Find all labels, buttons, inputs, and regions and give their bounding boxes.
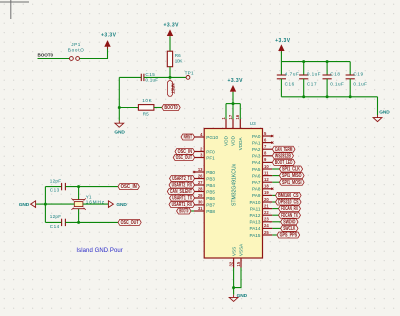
wire C14 to OSC_OUT [65,221,118,223]
wire VDD pin 17 drop [232,104,234,119]
pin 18 PA8 (right) [263,188,273,190]
svg-text:PG10: PG10 [206,135,218,140]
wire pin to SWCLK label [272,227,280,229]
junction C18 bottom [326,95,329,98]
svg-text:12pF: 12pF [50,178,61,183]
wire bottom rail to GND [377,97,379,115]
svg-text:VSS: VSS [231,247,236,256]
wire C17 bottom [303,79,305,97]
wire GND bus to crystal case left [45,203,74,205]
svg-text:GND: GND [379,109,390,115]
svg-text:USART2_TX: USART2_TX [172,176,192,182]
wire C17 top [303,62,305,75]
global label SPI1_CLK [279,166,302,172]
svg-text:U3: U3 [250,121,256,126]
svg-text:BOOT0: BOOT0 [38,52,54,57]
svg-text:+3.3V: +3.3V [228,78,244,84]
svg-text:PB4: PB4 [206,183,215,188]
svg-text:PB7: PB7 [206,203,215,208]
pin 31 PB8 (left) [194,210,204,212]
wire +3.3V to R6 [169,37,171,52]
wire GND bus (crystal, vertical) [44,187,46,223]
wire OSC_IN to crystal pin 1 [78,187,80,200]
svg-text:PA8: PA8 [252,187,261,192]
wire bottom rail [281,96,377,98]
svg-text:PB0: PB0 [206,170,215,175]
no-connect X at PB0 [193,171,195,173]
pin 24 PA14 (right) [263,227,273,229]
global label OSC_IN [175,149,195,155]
wire BOOT0 label to JP1 pin 1 [38,58,70,60]
global label BOOT_LED [272,159,295,165]
global label USART2_RX [169,182,195,188]
svg-text:PF1: PF1 [206,155,215,160]
svg-text:19: 19 [264,190,269,195]
svg-text:GND: GND [116,202,127,208]
wire C18 bottom [326,79,328,97]
wire JP1 pin 2 to +3.3V [80,47,108,59]
svg-text:PA12: PA12 [249,213,260,218]
svg-text:12pF: 12pF [50,214,61,219]
pin 3 PF1 (left) [194,157,204,159]
wire pin to FDCAN_TX label [272,214,278,216]
global label OSC_OUT (crystal) [118,219,141,225]
svg-text:PA14: PA14 [249,226,260,231]
wire pin to DPS310_CS label [272,201,275,203]
wire crystal case right to GND [83,203,109,205]
wire top corner to C13 [45,186,61,188]
wire GND bus to GND symbol [36,203,46,205]
pin 23 PA13 (right) [263,221,273,223]
svg-text:PB5: PB5 [206,189,215,194]
svg-text:0.1uF: 0.1uF [145,77,158,82]
svg-text:OSC_OUT: OSC_OUT [121,220,139,226]
svg-text:FDCAN_RX: FDCAN_RX [281,206,298,212]
svg-text:GND: GND [114,130,125,136]
no-connect X at PA8 [271,188,273,190]
jumper JP1 BootO [70,57,74,61]
svg-text:PA15: PA15 [249,233,260,238]
svg-text:+3.3V: +3.3V [101,32,117,38]
svg-text:21: 21 [264,203,269,208]
pin 11 PA6 (right) [263,175,273,177]
svg-text:25: 25 [264,230,269,235]
svg-text:BootO: BootO [68,47,84,52]
global label BMI160_CS [276,192,302,198]
pin 29 PB6 (left) [194,197,204,199]
global label CAN_TERM [272,146,295,152]
pin 25 PA15 (right) [263,234,273,236]
sheet origin crosshair [0,1,29,3]
pin 10 PA5 (right) [263,168,273,170]
svg-text:17: 17 [228,114,233,119]
global label SWCLK [281,225,298,231]
crystal Y1 16MHz [73,199,85,201]
op-amp substitute: microcontroller U3 STM32G491KCUx body [204,129,262,259]
no-connect X at PA0 [271,135,273,137]
svg-text:PA11: PA11 [250,206,261,211]
svg-text:SWDIO: SWDIO [283,219,295,225]
pin 26 PB3 (left) [194,178,204,180]
ground GND (U3) [233,295,235,298]
svg-text:10: 10 [264,164,269,169]
pin 15 VSSA (bottom) [240,258,242,268]
global label CAN_SILENT [167,189,194,195]
svg-text:0.1uF: 0.1uF [330,82,344,87]
svg-text:24: 24 [264,223,269,228]
svg-text:20: 20 [264,197,269,202]
svg-text:15: 15 [236,261,241,266]
svg-text:VDD: VDD [231,135,236,145]
global label USART1_RX [169,202,195,208]
wire pin to SPI1_MISO label [272,175,279,177]
svg-text:10K: 10K [175,58,184,63]
pin 5 PA0 (right) [263,135,273,137]
wire C18 top [326,62,328,75]
svg-text:BOOT0: BOOT0 [164,105,177,111]
svg-text:VDDA: VDDA [238,137,243,151]
wire top rail [281,61,350,63]
junction R5 branch [118,106,121,109]
svg-text:PA7: PA7 [252,180,261,185]
global label FDCAN_RX [279,206,301,212]
svg-text:SPI1_MOSI: SPI1_MOSI [282,180,302,186]
node NRST junction [169,76,172,79]
wire C16 bottom [280,79,282,97]
junction VSS/VSSA [232,286,235,289]
global label USART1_TX [170,195,195,201]
pin 2 PF0 (left) [194,151,204,153]
global label BOOT0 (PB8) [177,208,191,214]
ground GND (C15 rail) [118,121,120,124]
svg-text:32: 32 [229,261,234,266]
pin 7 PA2 (right) [263,148,273,150]
wire bottom corner to C14 [45,221,61,223]
svg-text:16: 16 [235,114,240,119]
pin 9 PA4 (right) [263,161,273,163]
junction crystal bottom [77,221,80,224]
svg-text:0.1uF: 0.1uF [307,71,321,76]
pin 1 VDD (top) [225,119,227,129]
svg-text:C18: C18 [330,71,340,76]
wire GND rail (left) [118,77,120,120]
wire pin to BMI160_CS label [272,194,275,196]
pin 21 PA11 (right) [263,208,273,210]
svg-text:CAN_TERM: CAN_TERM [275,147,293,153]
wire VSSA to GND [234,268,241,288]
svg-text:C15: C15 [145,72,155,77]
svg-text:C17: C17 [307,82,317,87]
power GND (crystal left) [31,201,36,208]
ground GND (decoupling bank) [377,115,379,118]
svg-text:29: 29 [198,193,203,198]
svg-text:26: 26 [198,173,203,178]
svg-text:PA5: PA5 [252,167,261,172]
svg-text:PA4: PA4 [252,160,261,165]
capacitor C19 [346,74,355,76]
wire VDDA drop [239,104,241,119]
pin 22 PA12 (right) [263,214,273,216]
pin 27 PB4 (left) [194,184,204,186]
wire pin to SWDIO label [272,221,280,223]
wire R5 to BOOT0 label [154,107,162,109]
pin 12 PA7 (right) [263,181,273,183]
pin 4 PG10 (left) [194,136,204,138]
svg-text:PB8: PB8 [206,209,215,214]
svg-text:GPS_PPS: GPS_PPS [280,233,298,239]
svg-text:VSSA: VSSA [239,243,244,256]
svg-text:30: 30 [198,200,203,205]
svg-text:BOOT0: BOOT0 [179,209,188,215]
svg-text:18: 18 [264,184,269,189]
svg-text:C19: C19 [353,71,363,76]
svg-text:STM32G491KCUx: STM32G491KCUx [231,163,237,206]
svg-text:PA6: PA6 [252,173,261,178]
pin 28 PB5 (left) [194,191,204,193]
svg-text:R5: R5 [143,112,149,117]
global label NRST [181,134,195,140]
svg-text:4.7uF: 4.7uF [285,71,299,76]
junction C19 bottom [349,95,352,98]
svg-text:13: 13 [198,167,203,172]
pin 32 VSS (bottom) [233,258,235,268]
global label GPS_PPS [277,232,300,238]
svg-text:11: 11 [264,170,269,175]
resistor R5 [138,105,154,111]
svg-text:22: 22 [264,210,269,215]
pin 20 PA10 (right) [263,201,273,203]
svg-text:PB3: PB3 [206,176,215,181]
global label OSC_IN (crystal) [118,184,139,190]
wire VSS to GND [233,268,235,295]
wire C19 top [349,62,351,75]
wire R6 to NRST node [169,67,171,78]
capacitor C15 [140,74,142,81]
junction crystal top [77,185,80,188]
svg-text:GND: GND [19,202,30,208]
svg-text:+3.3V: +3.3V [275,38,291,44]
svg-text:+3.3V: +3.3V [164,22,180,28]
capacitor C14 [61,219,63,226]
svg-text:PA9: PA9 [252,193,261,198]
svg-text:Island GND Pour: Island GND Pour [76,248,122,254]
wire pin to SPI1_MOSI label [272,181,279,183]
pin 17 VDD (top) [232,119,234,129]
wire C13 to OSC_IN [65,186,118,188]
svg-text:C14: C14 [50,224,60,229]
svg-text:BOOT_LED: BOOT_LED [275,160,293,166]
wire C16 top [280,62,282,75]
global label FDCAN_TX [279,212,301,218]
wire pin to SPI1_CLK label [272,168,279,170]
svg-text:28: 28 [198,186,203,191]
global label USART2_TX [170,176,195,182]
junction VDD rail [232,102,235,105]
capacitor C18 [323,74,332,76]
wire crystal pin 2 to OSC_OUT [78,209,80,223]
svg-text:10K: 10K [142,98,152,103]
svg-text:27: 27 [198,180,203,185]
svg-text:VDD: VDD [224,135,229,145]
svg-text:FDCAN_TX: FDCAN_TX [281,213,298,219]
global label SPI1_MOSI [279,179,304,185]
svg-text:USART2_RX: USART2_RX [172,183,193,189]
svg-text:PA13: PA13 [249,220,260,225]
svg-text:31: 31 [198,206,203,211]
capacitor C17 [299,74,308,76]
global label OSC_OUT [173,155,194,161]
junction C18 top [326,60,329,63]
wire pin to GPS_PPS label [272,234,277,236]
wire VDD rail horizontal [226,103,240,105]
pin 6 PA1 (right) [263,142,273,144]
global label SWDIO [281,219,298,225]
wire VDD pin 1 drop [225,104,227,119]
svg-text:PA10: PA10 [249,200,260,205]
svg-text:PF0: PF0 [206,149,215,154]
global label DPS310_CS [276,199,302,205]
pin 19 PA9 (right) [263,194,273,196]
wire junction to R5 [119,107,138,109]
svg-text:GND: GND [237,293,248,299]
junction C17 top [302,60,305,63]
capacitor C16 [277,74,286,76]
svg-text:OSC_IN: OSC_IN [121,184,138,190]
pin 30 PB7 (left) [194,204,204,206]
svg-text:WS2812B: WS2812B [275,153,291,159]
svg-text:BMI160_CS: BMI160_CS [278,193,299,199]
wire +3.3V to top rail [280,51,282,61]
no-connect X at PA1 [271,142,273,144]
capacitor C13 [61,183,63,190]
svg-text:12: 12 [264,177,269,182]
test point TP1 [186,76,190,80]
pin 8 PA3 (right) [263,155,273,157]
svg-text:PB6: PB6 [206,196,215,201]
wire +3.3V to VDD rail [232,92,234,104]
wire C19 bottom [349,79,351,97]
svg-text:23: 23 [264,217,269,222]
svg-text:NRST: NRST [170,83,175,94]
svg-text:SPI1_CLK: SPI1_CLK [282,167,300,173]
power GND (crystal right) [108,201,113,208]
global label WS2812B [272,153,293,159]
pin 16 VDDA (top) [239,119,241,129]
wire C15 to NRST node [119,76,141,78]
svg-text:0.1uF: 0.1uF [353,82,367,87]
resistor R6 [167,51,172,66]
svg-text:USART1_RX: USART1_RX [172,202,193,208]
wire NRST node to TP1 [170,76,186,78]
global label BOOT0 (R5) [162,105,180,111]
wire pin to FDCAN_RX label [272,208,278,210]
junction C17 bottom [302,95,305,98]
svg-text:SPI1_MISO: SPI1_MISO [282,173,302,179]
svg-text:TP1: TP1 [185,71,194,76]
svg-text:C16: C16 [285,82,295,87]
svg-text:CAN_SILENT: CAN_SILENT [170,189,192,195]
global label NRST (vertical, at junction) [167,80,172,96]
svg-text:DPS310_CS: DPS310_CS [278,200,299,206]
svg-text:SWCLK: SWCLK [283,226,295,232]
pin 13 PB0 (left) [194,171,204,173]
svg-text:PA2: PA2 [252,147,261,152]
junction GND bus [44,203,47,206]
svg-text:USART1_TX: USART1_TX [172,196,192,202]
wire PB8 to BOOT0 label [191,210,194,212]
svg-text:OSC_OUT: OSC_OUT [176,155,192,161]
svg-text:PA0: PA0 [252,134,261,139]
svg-text:NRST: NRST [184,135,192,141]
svg-text:PA1: PA1 [252,140,261,145]
svg-text:PA3: PA3 [252,154,261,159]
svg-text:C13: C13 [50,188,60,193]
global label SPI1_MISO [279,173,304,179]
